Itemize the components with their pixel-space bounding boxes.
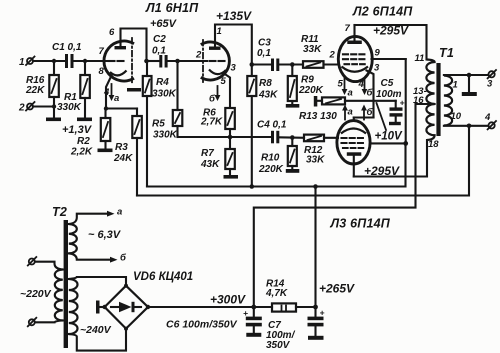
svg-text:+1,3V: +1,3V [62, 124, 93, 136]
capacitor C7 electrolytic [308, 307, 325, 336]
svg-text:+65V: +65V [150, 18, 178, 30]
svg-text:R2: R2 [77, 136, 90, 147]
ground under input 2 [46, 107, 61, 122]
svg-text:R7: R7 [201, 148, 214, 159]
svg-text:C2: C2 [153, 34, 166, 45]
wire R8 bottom to supply bus [251, 96, 253, 187]
node cathode V1a (+1,3V) [104, 106, 108, 110]
mains terminal (bottom) [28, 318, 37, 327]
wire secondary bottom to terminal 4 [444, 125, 489, 127]
triode V1b cathode pins 3,5 [209, 63, 237, 109]
T2 heater winding 6,3V [69, 224, 122, 253]
node grid Л2 / R9 [290, 62, 295, 67]
triode V1b envelope divider [202, 40, 204, 82]
heater pin 4 arrow to б (Л2) [358, 78, 374, 99]
svg-text:43K: 43K [258, 90, 278, 101]
svg-text:100m: 100m [376, 89, 402, 100]
wire 220V to terminal (top) [35, 262, 63, 270]
svg-text:VD6 КЦ401: VD6 КЦ401 [133, 271, 193, 283]
svg-text:220K: 220K [258, 164, 284, 175]
svg-text:2: 2 [329, 50, 336, 61]
svg-text:R9: R9 [301, 75, 314, 86]
svg-text:T2: T2 [52, 205, 67, 219]
ground bar under C5 [389, 122, 401, 125]
wire R11 to grid Л2 [324, 63, 340, 65]
svg-text:330K: 330K [153, 130, 178, 141]
wire C1 to grid [74, 60, 109, 62]
svg-text:C5: C5 [381, 78, 394, 89]
wire R4 bottom to supply bus [146, 96, 148, 187]
wire anode V1b to +135V node [215, 25, 252, 65]
svg-text:+: + [400, 98, 405, 108]
triode V1b envelope [201, 42, 230, 80]
pentode Л3 anode [347, 152, 362, 176]
node secondary pin 10 / feedback [467, 124, 472, 129]
wire anode Л3 to T1 pin 18 [354, 140, 427, 177]
svg-text:3: 3 [231, 63, 237, 74]
feedback wire from terminal 4 to R3 [137, 126, 469, 196]
svg-text:2,2K: 2,2K [70, 147, 93, 158]
svg-text:+: + [243, 308, 248, 318]
wire C2 to grid V1b [168, 60, 207, 62]
svg-text:10: 10 [451, 111, 462, 122]
capacitor C7 label [266, 320, 296, 351]
svg-text:C6 100m/350V: C6 100m/350V [166, 319, 238, 331]
wire C3 to R11 [279, 63, 303, 65]
pentode Л2 cathode pin 3 [342, 63, 381, 118]
svg-text:330K: 330K [152, 89, 177, 100]
resistor R9 [288, 65, 324, 105]
svg-text:4: 4 [484, 112, 491, 123]
svg-text:33K: 33K [306, 155, 325, 166]
T2 primary winding 220V [20, 270, 63, 321]
capacitor C1 [65, 54, 74, 68]
svg-text:2: 2 [195, 50, 202, 61]
svg-text:R8: R8 [259, 78, 272, 89]
triode V1a anode plate pin 6 [109, 27, 126, 49]
ground under R9 [286, 104, 300, 108]
pentode Л2 screen pin 9 wire [372, 48, 406, 60]
T2 anode winding 240V [69, 279, 112, 336]
capacitor C5 label [376, 78, 402, 100]
heater bar Л1 [127, 88, 141, 92]
T1 secondary winding [444, 76, 462, 126]
input terminal 1 [19, 57, 35, 69]
resistor R3 [113, 109, 142, 165]
wire input 1 to C1 [33, 60, 66, 62]
svg-text:~220V: ~220V [20, 288, 52, 300]
svg-text:350V: 350V [266, 340, 291, 351]
pentode Л3 envelope [337, 121, 370, 164]
svg-text:11: 11 [415, 53, 425, 64]
svg-text:R4: R4 [156, 77, 169, 88]
svg-text:R3: R3 [115, 142, 128, 153]
svg-text:а: а [114, 93, 119, 104]
resistor R2 [70, 109, 110, 158]
wire input 2 [33, 105, 54, 107]
resistor R7 [200, 137, 235, 175]
svg-text:43K: 43K [200, 159, 220, 170]
T1 primary lower winding pin 18 [426, 104, 439, 150]
node +265V / screens [403, 141, 408, 146]
svg-text:а: а [348, 88, 353, 99]
heater arrow to а (Л3) [342, 105, 353, 120]
capacitor C3 label [257, 38, 271, 60]
svg-text:4: 4 [358, 79, 365, 90]
svg-text:2,7K: 2,7K [200, 117, 223, 128]
node +300V / C6 [251, 305, 256, 310]
wire 240V to bridge bottom [69, 330, 126, 351]
svg-text:~ 6,3V: ~ 6,3V [88, 229, 122, 241]
svg-text:6: 6 [109, 27, 115, 38]
wire cathode to R3 [106, 107, 137, 109]
svg-text:0,1: 0,1 [257, 48, 271, 59]
resistor R10 [258, 138, 297, 176]
wire node to C2 [147, 60, 160, 62]
node junction R16/C1 [52, 59, 56, 63]
wire C4 to R12 [279, 136, 304, 139]
transformer T1 core [436, 63, 440, 136]
ground under R2 [98, 149, 113, 153]
node junction input 2 [52, 104, 56, 108]
ground bar R13 [314, 96, 318, 107]
node +265V / C7 [313, 305, 318, 310]
input terminal 2 [18, 102, 35, 114]
mains terminal (top) [28, 257, 37, 266]
resistor R16 [25, 61, 59, 107]
pentode Л3 grids [342, 138, 367, 148]
resistor R11 [301, 34, 324, 68]
wire R3 to feedback line [136, 138, 138, 196]
wire anode V1a to +65V node [121, 29, 147, 62]
wire anode Л2 to T1 pin 11 [355, 25, 427, 60]
wire screen riser to +265V node [405, 59, 407, 143]
capacitor C2 label [152, 34, 166, 57]
wire R14 to +265V node [296, 306, 316, 308]
ground under R10 [286, 169, 300, 173]
node grid Л3 / R10 [290, 135, 295, 140]
resistor R8 [247, 65, 278, 101]
capacitor C5 electrolytic [390, 98, 405, 122]
svg-text:C1 0,1: C1 0,1 [52, 42, 82, 53]
wire 220V to terminal (bottom) [35, 321, 63, 323]
node grid V1b / R5 [175, 59, 180, 64]
svg-text:33K: 33K [303, 44, 322, 55]
pentode Л2 grids [343, 54, 368, 64]
resistor R6 [200, 108, 235, 138]
node secondary pin 1 / ground [467, 73, 472, 78]
svg-text:C4 0,1: C4 0,1 [257, 120, 287, 131]
node junction R1 / grid V1a [83, 59, 87, 63]
svg-text:+265V: +265V [319, 282, 355, 296]
T1 primary upper winding pin 11 [415, 53, 435, 104]
wire R12 to grid Л3 [324, 137, 338, 139]
resistor R14 [265, 279, 296, 312]
output terminal 4 [484, 112, 496, 129]
heater pin 5 arrow to а (Л2) [338, 77, 353, 99]
triode V1a grid pin 7 [99, 46, 124, 61]
svg-text:3: 3 [374, 63, 380, 74]
T1 center tap label 13-16 [413, 86, 427, 106]
output terminal 3 [487, 70, 496, 90]
triode V1a cathode pin 8 [99, 66, 127, 109]
svg-text:а: а [348, 107, 353, 118]
svg-text:4,7K: 4,7K [265, 288, 288, 299]
node cathode V1b / R6 R7 [228, 135, 233, 140]
svg-text:330K: 330K [57, 102, 82, 113]
resistor R5 [152, 61, 182, 141]
svg-text:R13 130: R13 130 [299, 111, 337, 122]
svg-text:+10V: +10V [375, 131, 404, 143]
svg-text:1: 1 [453, 80, 458, 91]
svg-text:7: 7 [345, 23, 351, 34]
svg-text:8: 8 [99, 66, 105, 77]
pentode Л2 anode pin 7 [345, 23, 362, 44]
resistor R1 [57, 61, 90, 118]
node R8 on +265V bus [250, 184, 255, 189]
supply bus +265V wire [147, 143, 406, 186]
capacitor C4 [271, 131, 279, 144]
svg-text:1: 1 [217, 26, 222, 37]
svg-text:Л2 6П14П: Л2 6П14П [352, 5, 413, 19]
diode bridge VD6 КЦ401 [102, 271, 193, 331]
wire node to C3 [252, 63, 271, 65]
capacitor C6 electrolytic [243, 307, 262, 333]
wire R13 to cathode net [345, 100, 396, 102]
svg-text:3: 3 [487, 79, 493, 90]
svg-text:22K: 22K [25, 85, 45, 96]
node +65V anode V1a [144, 59, 149, 64]
resistor R4 [143, 61, 177, 100]
svg-text:2: 2 [18, 103, 25, 114]
svg-text:4: 4 [103, 87, 110, 98]
svg-text:R10: R10 [261, 153, 280, 164]
svg-text:T1: T1 [439, 46, 454, 60]
transformer T2 core [64, 220, 68, 348]
svg-text:18: 18 [428, 139, 439, 150]
triode V1a envelope divider [131, 38, 133, 84]
svg-text:Л1 6Н1П: Л1 6Н1П [145, 1, 199, 15]
wire cathode Л3 to cathode net [354, 116, 374, 118]
svg-text:~240V: ~240V [80, 324, 112, 336]
pentode Л3 cathode [341, 118, 366, 134]
+10V label pointer [377, 103, 387, 130]
svg-text:+: + [320, 308, 325, 318]
wire 6,3V to а arrow [69, 207, 122, 225]
ground under C7 [308, 336, 324, 340]
wire bridge plus to R14 (+300V line) [148, 306, 272, 308]
svg-text:5: 5 [221, 76, 227, 87]
node +265V riser on bus [313, 184, 318, 189]
svg-text:+295V: +295V [364, 164, 400, 178]
ground bar at bridge minus [96, 301, 105, 314]
ground under C6 [246, 333, 261, 337]
ground under R1 [77, 118, 92, 122]
svg-text:C3: C3 [258, 38, 271, 49]
wire +265V riser [314, 187, 316, 307]
triode V1b grid pin 2 [195, 50, 225, 62]
capacitor C3 [271, 59, 279, 72]
triode V1a envelope [104, 41, 134, 81]
svg-text:+300V: +300V [210, 293, 246, 307]
wire center tap to +300V [254, 104, 435, 307]
heater pin arrow to б (V1b) [209, 86, 220, 105]
svg-text:24K: 24K [113, 153, 133, 164]
pentode Л2 envelope [338, 36, 372, 81]
wire secondary top to terminal 3 [444, 74, 489, 76]
ground under R7 [224, 175, 239, 179]
svg-text:+135V: +135V [216, 9, 252, 23]
svg-text:7: 7 [99, 46, 105, 57]
wire 240V to bridge top [69, 277, 126, 285]
heater arrow to б (Л3) [361, 105, 373, 120]
ground under secondary [462, 75, 477, 96]
svg-text:5: 5 [338, 79, 344, 90]
svg-text:R5: R5 [152, 119, 165, 130]
wire R5/cathode to C4 [178, 136, 272, 138]
capacitor C2 [159, 55, 167, 68]
diode inside bridge [111, 302, 141, 312]
svg-text:Л3 6П14П: Л3 6П14П [330, 217, 391, 231]
heater pin 4 arrow to а [103, 84, 119, 104]
resistor R12 [304, 135, 325, 166]
node +135V anode V1b / C3 / R8 [250, 62, 255, 67]
svg-text:1: 1 [19, 57, 25, 68]
svg-text:9: 9 [375, 48, 381, 59]
resistor R13 [299, 97, 345, 122]
triode V1b anode plate pin 1 [209, 26, 222, 50]
svg-text:а: а [117, 207, 122, 218]
wire 6,3V to б arrow [69, 253, 127, 264]
svg-text:220K: 220K [298, 85, 324, 96]
svg-text:0,1: 0,1 [152, 46, 166, 57]
pentode Л3 screen wire to +265V node [370, 142, 406, 144]
